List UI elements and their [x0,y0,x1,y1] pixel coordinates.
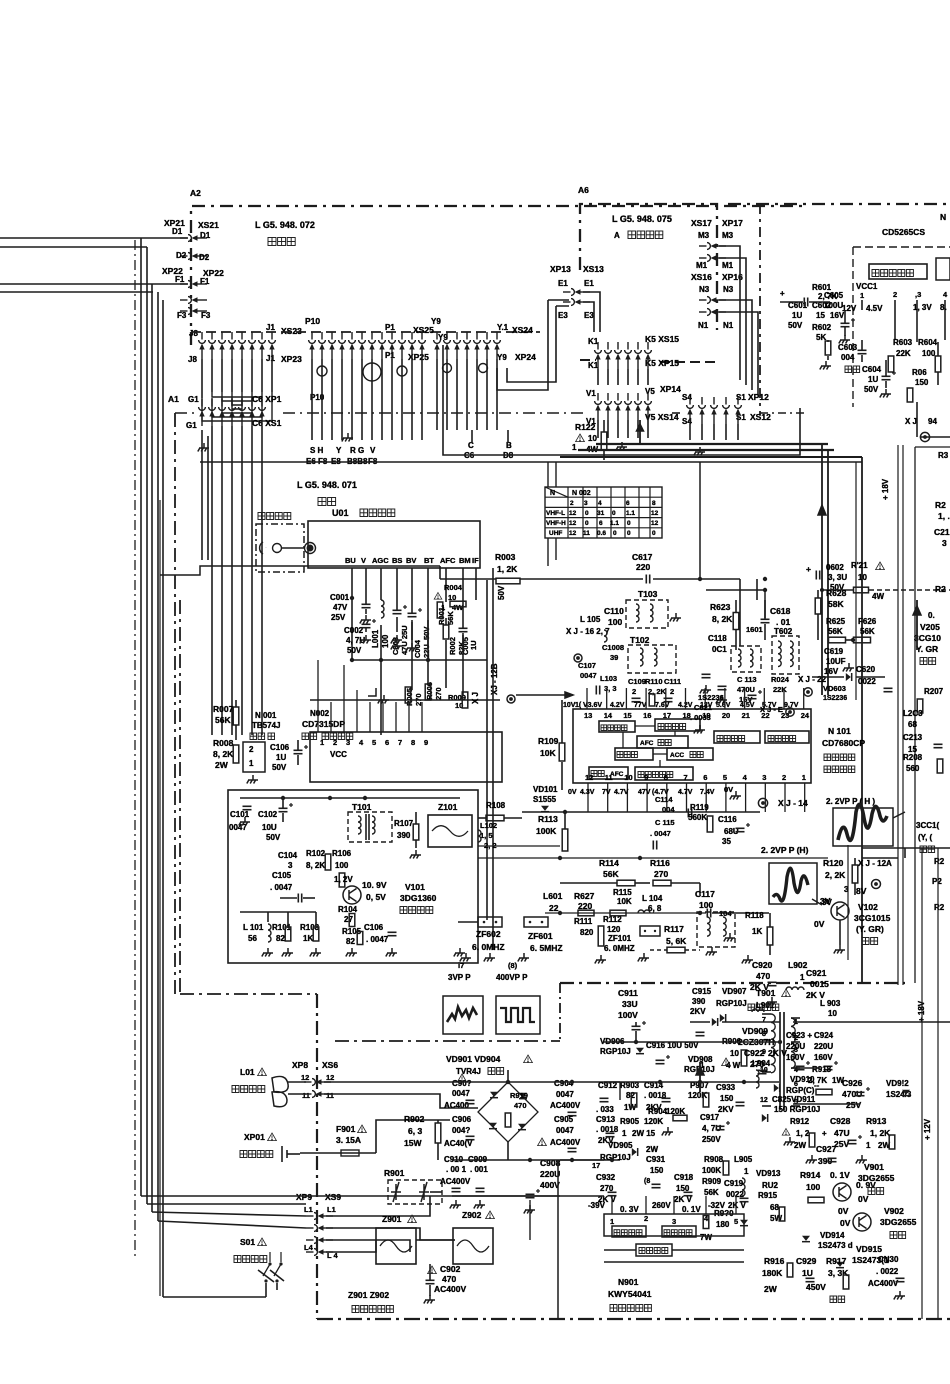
svg-text:C911: C911 [618,988,638,998]
svg-text:R2: R2 [934,857,945,866]
connector XS25/XP25 pin 1 [309,332,316,359]
N901 internal blocks CJK [612,1226,646,1237]
svg-text:150 RGP10J: 150 RGP10J [774,1105,820,1114]
svg-text:400V: 400V [540,1180,560,1190]
connector XP14 pin 2 [605,393,612,420]
board A1 dash-dot boundary top [175,412,198,414]
svg-text:R118: R118 [745,911,764,920]
svg-text:1: 1 [320,738,324,747]
svg-text:0: 0 [627,520,631,527]
svg-text:R915: R915 [758,1191,778,1200]
svg-text:V205: V205 [920,622,940,632]
connector XS16 pin N3 [699,297,726,304]
right rails vertical [921,848,923,1319]
svg-text:5: 5 [372,738,376,747]
svg-text:F3: F3 [177,311,187,320]
label remote board (CJK) [268,238,295,246]
svg-text:470U: 470U [842,1089,862,1099]
svg-text:33U: 33U [622,999,638,1009]
connector XS23/XP23 pin 4 [229,332,236,359]
connector C6-XP1 pin 2 [209,399,216,426]
svg-text:C928: C928 [830,1116,851,1126]
svg-text:. 0047: . 0047 [650,829,671,838]
antenna symbol [260,542,266,554]
svg-text:3CG1015: 3CG1015 [854,913,891,923]
svg-text:N1: N1 [723,321,734,330]
svg-text:0. 3V: 0. 3V [620,1205,639,1214]
connector C6-XP1 pin 7 [259,399,266,426]
svg-text:R625: R625 [826,617,846,626]
svg-text:Z901: Z901 [382,1214,402,1224]
svg-text:100: 100 [608,617,622,627]
svg-text:P1: P1 [385,351,395,360]
svg-text:3: 3 [672,1217,676,1226]
connector XP13 pin E2 [563,299,590,306]
svg-text:V1: V1 [586,389,596,398]
svg-text:-32V: -32V [708,1201,726,1210]
svg-text:L2C3: L2C3 [903,709,923,718]
svg-text:R111: R111 [574,917,593,926]
svg-text:M1: M1 [722,261,734,270]
svg-text:R627: R627 [574,891,595,901]
vertical wire x848 down [847,845,849,960]
wires under N101 [522,811,760,813]
svg-text:1U: 1U [276,753,286,762]
N101 internal block: AFC det [637,736,688,748]
svg-text:R918: R918 [812,1065,832,1074]
svg-text:12: 12 [585,773,593,782]
grounds bottom of IF box [262,948,273,957]
svg-text:R905: R905 [620,1117,640,1126]
svg-text:2W: 2W [646,1145,658,1154]
svg-text:C114: C114 [655,795,673,804]
svg-text:5.6V: 5.6V [716,702,731,709]
svg-text:C6 XS1: C6 XS1 [252,418,282,428]
svg-text:KWY54041: KWY54041 [608,1289,652,1299]
svg-text:10K: 10K [617,897,632,906]
circle test points under XS24 [443,364,452,373]
svg-text:6: 6 [599,520,603,527]
svg-text:0: 0 [612,510,616,517]
volume adjust CJK box [869,264,927,279]
svg-text:180K: 180K [762,1268,783,1278]
svg-text:100K: 100K [702,1166,721,1175]
svg-text:+: + [822,1129,827,1138]
connector C6-XP1 pin 4 [229,399,236,426]
connector XS25/XP25 pin 2 [319,332,326,359]
board A2 outline (remote control board, dashed) [191,206,808,345]
svg-text:J8: J8 [188,355,197,364]
svg-text:3V: 3V [822,898,832,907]
svg-text:L G5. 948. 072: L G5. 948. 072 [255,220,315,230]
svg-text:17: 17 [592,1161,600,1170]
power switch symbol [269,1252,271,1262]
svg-text:X J - 14: X J - 14 [778,798,808,808]
connector XS25/XP25 pin 12 [419,332,426,359]
svg-text:C922: C922 [744,1048,765,1058]
svg-text:C906: C906 [452,1115,472,1124]
svg-text:. 0033: . 0033 [690,713,711,722]
svg-text:180: 180 [716,1220,730,1229]
svg-text:120K: 120K [644,1117,663,1126]
svg-text:C617: C617 [632,552,653,562]
connector XS23/XP23 pin 8 [269,332,276,359]
svg-text:R601: R601 [812,283,832,292]
IC N101 box [573,709,811,783]
svg-text:4, 7U: 4, 7U [702,1124,721,1133]
svg-text:0, 5V: 0, 5V [366,892,386,902]
svg-text:R916: R916 [764,1256,785,1266]
svg-text:0: 0 [585,510,589,517]
warning triangles near bridge [458,1074,467,1082]
svg-text:0: 0 [627,530,631,537]
svg-text:Y. GR: Y. GR [916,644,938,654]
svg-text:R109: R109 [538,736,559,746]
IF amplifier section box [228,790,478,963]
svg-text:TB574J: TB574J [252,721,280,730]
svg-text:004?: 004? [452,1126,470,1135]
svg-text:R208: R208 [903,753,923,762]
svg-text:220U: 220U [814,1042,833,1051]
hook symbol [368,688,376,696]
svg-text:. 033: . 033 [596,1105,614,1114]
svg-text:100K: 100K [536,826,557,836]
arrow into N101 left [516,694,573,696]
wire tuner AGC rail down to N002 [380,625,382,735]
svg-text:2K V: 2K V [750,982,769,992]
inner wires bundle going down from XS23 area [201,430,203,560]
svg-text:560K: 560K [688,813,707,822]
svg-text:400VP P: 400VP P [496,973,528,982]
CJK label bottom right [830,1296,845,1303]
svg-text:R117: R117 [664,924,684,934]
svg-text:BT: BT [424,556,434,565]
svg-text:1: 1 [441,603,445,612]
svg-text:68: 68 [908,720,917,729]
svg-text:R113: R113 [538,814,558,824]
svg-text:2: 2 [670,687,674,696]
svg-text:V901: V901 [864,1162,884,1172]
degaussing coil symbol [272,1076,288,1092]
box around XS24 output area [443,345,800,455]
svg-text:S01: S01 [240,1237,255,1247]
svg-text:1: 1 [622,1129,627,1138]
svg-text:12: 12 [569,520,577,527]
svg-text:4.5V: 4.5V [740,702,755,709]
svg-text:220U: 220U [786,1042,805,1051]
svg-text:14: 14 [604,711,613,720]
svg-text:0V: 0V [814,919,825,929]
svg-text:L4: L4 [304,1243,314,1252]
junction dots tuner rails [350,658,354,662]
svg-text:22K: 22K [896,349,911,358]
svg-text:260V: 260V [652,1201,671,1210]
svg-text:8V: 8V [856,886,867,896]
svg-text:A1: A1 [168,394,179,404]
svg-text:F626: F626 [858,617,877,626]
svg-text:C929: C929 [796,1256,817,1266]
svg-text:N1: N1 [698,321,709,330]
wires down from XS14 + ground [597,420,599,438]
svg-text:0V: 0V [724,785,733,794]
svg-text:R107: R107 [394,819,414,828]
svg-text:120: 120 [607,925,621,934]
svg-text:R909: R909 [702,1177,722,1186]
waveform monitor box 2 [769,863,817,904]
svg-text:12: 12 [301,1073,309,1082]
svg-text:270: 270 [654,869,668,879]
svg-text:(Y, (: (Y, ( [918,833,933,842]
N101 internal wires [635,725,655,727]
svg-text:7.6V: 7.6V [655,702,670,709]
connector XS15 pin 1 [595,342,602,369]
svg-text:6. 0MHZ: 6. 0MHZ [604,944,635,953]
svg-text:ZF602: ZF602 [476,929,501,939]
bus vertical pair to sound section [855,462,857,700]
svg-text:R102: R102 [306,849,326,858]
svg-text:B: B [506,441,512,450]
svg-text:220: 220 [636,562,650,572]
ground under V102 [834,945,845,954]
connector C6-XP1 pin 6 [249,399,256,426]
svg-text:0: 0 [652,530,656,537]
svg-text:V101: V101 [405,882,425,892]
svg-text:470: 470 [514,1101,527,1110]
wire row y=913 [545,912,706,914]
svg-text:R007: R007 [213,704,234,714]
svg-text:XP25: XP25 [408,352,429,362]
pot P1 small circle [397,366,407,376]
power junction dots [634,1040,638,1044]
svg-text:10U: 10U [262,823,277,832]
svg-text:R003: R003 [495,552,516,562]
wires XP9 to filters [326,1196,430,1216]
svg-text:8: 8 [411,738,415,747]
svg-text:3: 3 [584,500,588,507]
svg-text:VHF-L: VHF-L [546,510,565,517]
svg-text:R110: R110 [645,677,663,686]
power plug symbol [281,1146,283,1162]
svg-text:VCC: VCC [330,750,347,759]
svg-text:R008: R008 [213,738,234,748]
svg-text:21: 21 [742,711,750,720]
svg-text:2. 2VP P ( H ): 2. 2VP P ( H ) [826,797,875,806]
svg-text:N3: N3 [699,285,710,294]
svg-text:10: 10 [730,1049,739,1058]
test point XJ circle [507,695,515,703]
connector XP22 pin F2 [180,297,207,304]
right board vertical rails [897,445,899,985]
svg-text:VHF-H: VHF-H [546,520,566,527]
svg-text:P1: P1 [385,323,395,332]
svg-text:X J - 16 2, 7: X J - 16 2, 7 [566,627,610,636]
svg-text:250V: 250V [702,1135,721,1144]
svg-text:1601: 1601 [746,625,763,634]
svg-text:3: 3 [346,738,350,747]
svg-text:10: 10 [828,1009,837,1018]
connector XS15 pin 2 [605,342,612,369]
svg-text:1S2236: 1S2236 [698,693,724,702]
svg-text:4.5V: 4.5V [866,304,883,313]
svg-text:TVR4J: TVR4J [456,1067,481,1076]
svg-text:7W: 7W [700,1233,712,1242]
N901 pin leads [611,1196,613,1214]
svg-text:1, .: 1, . [938,511,950,521]
svg-text:56K: 56K [446,611,455,625]
svg-text:3VP P: 3VP P [448,973,471,982]
test point XJ-12A [872,880,881,889]
wires down from XS1 pins [211,426,213,735]
svg-text:0V: 0V [858,1194,869,1204]
resistor R918 2.7K 1W [722,1058,731,1066]
svg-text:1, 3V: 1, 3V [913,303,932,312]
vertical wires tuner area to N002 pins [317,702,319,732]
svg-text:CD7680CP: CD7680CP [822,738,865,748]
svg-text:1S2236: 1S2236 [823,695,847,702]
svg-text:1, 2: 1, 2 [796,1129,810,1138]
N101 internal block: video det 2 [655,719,700,731]
svg-text:C116: C116 [718,815,737,824]
svg-text:E1: E1 [558,279,568,288]
svg-text:AFC: AFC [640,740,654,747]
N101 internal block: video det 1 [599,721,635,732]
svg-text:560: 560 [906,764,920,773]
svg-text:XP01: XP01 [244,1132,265,1142]
svg-text:. 0022: . 0022 [876,1267,899,1276]
svg-text:C 115: C 115 [655,818,675,827]
svg-text:S H: S H [310,446,324,455]
svg-text:2W 15: 2W 15 [632,1129,656,1138]
svg-text:VD907: VD907 [722,987,747,996]
svg-text:0: 0 [585,520,589,527]
svg-text:3: 3 [942,538,947,548]
svg-text:N 002: N 002 [572,490,591,497]
svg-text:E1: E1 [584,279,594,288]
A6 box bottom dashes [580,359,596,361]
svg-text:4: 4 [359,738,364,747]
svg-text:100: 100 [806,1182,820,1192]
long IF wire with C617 [440,578,496,580]
svg-text:0V: 0V [568,789,577,796]
svg-text:13: 13 [584,711,592,720]
filter Z902 box [453,1228,493,1264]
chassis dashed top right [728,203,950,205]
svg-text:T602: T602 [774,627,793,636]
svg-text:0022: 0022 [858,677,876,686]
svg-text:R2: R2 [934,903,945,912]
channel voltage table N002 [545,487,662,538]
tuner pin wires down [351,568,353,600]
bottom dash-dot boundary [317,1318,950,1320]
svg-text:0047: 0047 [556,1126,574,1135]
connector XS24/XP24 pin 7 [494,332,501,359]
svg-text:T103: T103 [638,589,658,599]
audio CJK label [845,366,860,373]
connector XS23/XP23 pin 3 [219,332,226,359]
svg-text:V3.6V: V3.6V [583,702,602,709]
svg-text:0015: 0015 [810,979,829,989]
svg-text:C905: C905 [554,1115,574,1124]
svg-text:R604: R604 [918,338,938,347]
svg-text:C921: C921 [806,968,827,978]
chassis dashed vertical boundary x=760 [759,204,761,415]
svg-text:25V: 25V [846,1100,861,1110]
wires down from XP15 [597,369,599,385]
svg-text:47V: 47V [638,789,651,796]
svg-text:12: 12 [760,1097,768,1104]
svg-text:C21.: C21. [934,527,950,537]
svg-text:L103: L103 [600,674,617,683]
svg-text:A: A [614,231,620,240]
svg-text:C104: C104 [278,851,298,860]
svg-text:100: 100 [922,349,936,358]
svg-text:Y: Y [336,446,342,455]
svg-text:N: N [940,212,946,222]
boundary step down left [179,600,181,994]
svg-text:C619: C619 [824,647,844,656]
test point XJ-22 [804,688,812,696]
svg-text:RU2: RU2 [762,1181,779,1190]
IC N901 box [604,1214,744,1236]
svg-text:6: 6 [626,500,630,507]
svg-text:F901: F901 [336,1124,356,1134]
svg-text:12: 12 [651,510,659,517]
svg-text:-39V: -39V [588,1201,606,1210]
svg-text:6, 3: 6, 3 [408,1126,422,1136]
svg-text:XS25: XS25 [413,325,434,335]
up arrow x=601 above N101 [600,769,602,771]
svg-text:XS13: XS13 [583,264,604,274]
svg-text:ZF601: ZF601 [528,931,553,941]
svg-text:ACC: ACC [670,752,684,759]
connector XP8 pin 12 [304,1079,331,1086]
svg-text:2KV: 2KV [718,1105,734,1114]
svg-text:1U: 1U [792,311,802,320]
svg-text:11: 11 [302,1091,310,1100]
connector XS24/XP24 pin 6 [484,332,491,359]
connector XP14 pin 1 [595,393,602,420]
main board outline top [159,500,161,1296]
connector XP13 pin E1 [563,289,590,296]
svg-text:56K: 56K [704,1188,719,1197]
svg-text:C933: C933 [716,1083,736,1092]
wires from E pins down [583,292,600,332]
svg-text:1.1: 1.1 [610,520,619,527]
svg-text:R119: R119 [690,803,709,812]
svg-text:50V: 50V [497,585,506,600]
cap C920 diode row [720,1014,725,1022]
svg-text:1: 1 [744,1167,749,1176]
verticals from XS24 box to table [547,462,549,487]
svg-text:8, 2K: 8, 2K [213,749,234,759]
connector XS24/XP24 pin 5 [474,332,481,359]
svg-text:C919: C919 [724,1179,744,1188]
svg-text:1K: 1K [303,934,313,943]
second harness line [160,566,440,575]
riser tops to XP13 [548,299,569,301]
svg-text:C111: C111 [664,677,681,686]
ground at G1 [198,443,209,452]
connector XS15 pin 4 [625,342,632,369]
svg-text:X J: X J [471,692,480,704]
connector XP21 pin D1 [180,235,207,242]
svg-text:470U: 470U [737,685,755,694]
svg-text:R913: R913 [866,1116,887,1126]
svg-text:4: 4 [943,290,948,299]
diode to C620 [846,673,851,681]
svg-text:VD915: VD915 [856,1244,882,1254]
svg-text:R2: R2 [935,584,946,594]
